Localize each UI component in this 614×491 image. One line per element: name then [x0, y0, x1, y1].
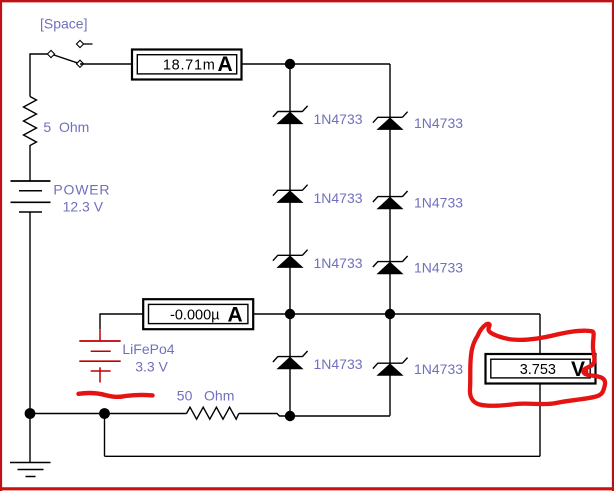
wire battery V1 to bottom node [29, 212, 31, 414]
voltmeter M3 outer box [486, 354, 596, 384]
battery V1 POWER plates [11, 181, 51, 212]
svg-text:1N4733: 1N4733 [414, 115, 463, 131]
zener diode D3 [273, 250, 308, 268]
wire resistor R2 to node with jog [239, 414, 390, 417]
wire right diode column vertical [389, 64, 391, 416]
red annotation border top [0, 0, 614, 2]
switch S1 open throw stub [80, 43, 93, 45]
wire resistor to battery V1 [29, 148, 31, 181]
node junction dot right column middle [385, 309, 395, 319]
red marker circle around voltmeter [470, 324, 605, 406]
zener diode D4 [273, 351, 308, 369]
wire switch to ammeter1 [80, 63, 132, 65]
resistor R2 50 Ohm zigzag [187, 407, 239, 419]
wire middle row ammeter2 to voltmeter branch [253, 313, 540, 315]
svg-text:3.753: 3.753 [520, 362, 556, 378]
red annotation border bottom [0, 487, 614, 490]
svg-text:LiFePo4: LiFePo4 [122, 341, 174, 357]
red marker scribble under battery [79, 393, 153, 397]
svg-text:[Space]: [Space] [40, 16, 87, 32]
wire node A to top of right diode column [290, 63, 390, 65]
wire ammeter1 to node A [242, 63, 291, 65]
zener diode D5 [373, 112, 408, 130]
wire top-left corner to switch [30, 54, 51, 97]
node junction dot battery return [99, 408, 110, 419]
zener diode D7 [373, 256, 408, 274]
svg-text:1N4733: 1N4733 [314, 356, 363, 372]
svg-text:A: A [218, 53, 233, 76]
zener diode D8 [373, 358, 408, 376]
node junction dot left column bottom [285, 411, 295, 421]
switch S1 blade [51, 54, 80, 64]
ammeter M2 inner box [149, 304, 248, 323]
svg-text:1N4733: 1N4733 [414, 361, 463, 377]
wire voltmeter branch vertical lower [539, 384, 541, 457]
svg-text:5 Ohm: 5 Ohm [43, 119, 89, 135]
battery V2 LiFePo4 red symbol [79, 329, 120, 382]
node junction dot top [285, 59, 295, 69]
svg-text:A: A [228, 304, 243, 327]
ground symbol [10, 414, 51, 477]
svg-text:POWER: POWER [53, 181, 110, 197]
node junction dot ground [25, 408, 36, 419]
red marker blob at voltmeter V [581, 368, 588, 375]
switch terminal diamond throw open [76, 40, 83, 47]
node junction dot left column middle [285, 309, 295, 319]
svg-text:3.3 V: 3.3 V [135, 359, 168, 375]
ammeter M2 outer box [143, 299, 253, 329]
svg-text:50 Ohm: 50 Ohm [177, 388, 235, 404]
red annotation border left [0, 0, 2, 491]
wire left diode column vertical [289, 64, 291, 416]
wire bottom return [105, 455, 541, 457]
resistor R1 5 Ohm zigzag [24, 97, 37, 149]
wire voltmeter branch vertical upper [539, 314, 541, 354]
svg-text:1N4733: 1N4733 [314, 255, 363, 271]
red annotation border right [612, 0, 614, 491]
wire bottom left horizontal [30, 413, 187, 415]
svg-text:12.3 V: 12.3 V [63, 198, 104, 214]
svg-text:1N4733: 1N4733 [314, 111, 363, 127]
svg-text:1N4733: 1N4733 [414, 195, 463, 211]
svg-text:-0.000µ: -0.000µ [170, 307, 220, 323]
switch terminal diamond throw closed [76, 60, 83, 67]
zener diode D6 [373, 191, 408, 209]
wire ammeter2 left to LiFePo4 top [100, 314, 143, 329]
ammeter M1 outer box [132, 50, 242, 80]
svg-text:1N4733: 1N4733 [314, 190, 363, 206]
zener diode D1 [273, 106, 308, 124]
zener diode D2 [273, 185, 308, 203]
wire battery return drop [104, 414, 106, 457]
svg-text:18.71m: 18.71m [163, 57, 216, 73]
voltmeter M3 inner box [491, 359, 590, 378]
switch terminal diamond pole [47, 50, 54, 57]
svg-text:1N4733: 1N4733 [414, 260, 463, 276]
ammeter M1 inner box [137, 55, 236, 74]
